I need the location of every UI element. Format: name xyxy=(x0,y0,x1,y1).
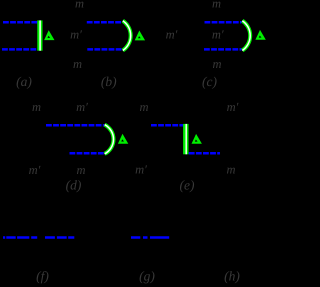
curved mirror (d) white core xyxy=(105,125,114,154)
svg-text:(g): (g) xyxy=(139,269,155,284)
beam segment (g) xyxy=(131,236,170,239)
svg-text:m: m xyxy=(226,162,235,176)
beam line bottom (a) xyxy=(2,48,38,51)
svg-text:(b): (b) xyxy=(101,74,117,89)
curved mirror (b) green xyxy=(123,21,131,51)
svg-text:m′: m′ xyxy=(227,100,239,114)
svg-text:m′: m′ xyxy=(76,100,88,114)
svg-text:m′: m′ xyxy=(135,162,147,176)
svg-text:m: m xyxy=(32,100,41,114)
delta label (a) xyxy=(44,30,54,40)
beam line bottom (c) xyxy=(204,48,242,51)
svg-text:m′: m′ xyxy=(166,27,178,41)
beam line top (a) xyxy=(3,21,38,24)
beam line top (c) xyxy=(205,21,242,24)
beam line bottom (d) xyxy=(70,152,105,155)
svg-text:m: m xyxy=(76,163,85,177)
svg-text:m: m xyxy=(212,57,221,71)
svg-text:(c): (c) xyxy=(202,74,217,89)
delta label (c) xyxy=(255,30,265,40)
svg-text:m′: m′ xyxy=(212,27,224,41)
curved mirror (d) green xyxy=(105,125,114,154)
flat mirror (e) green xyxy=(183,124,188,154)
curved mirror (c) white core xyxy=(242,21,250,51)
svg-text:(f): (f) xyxy=(36,269,49,284)
beam line top (d) xyxy=(46,124,104,127)
flat mirror (e) white core xyxy=(185,124,187,154)
beam line top (b) xyxy=(87,21,122,24)
svg-text:m′: m′ xyxy=(29,163,41,177)
flat mirror (a) green xyxy=(37,20,42,50)
curved mirror (b) white core xyxy=(123,21,131,51)
curved mirror (c) green xyxy=(242,21,250,51)
svg-text:m: m xyxy=(73,57,82,71)
beam segment left (f) xyxy=(3,236,38,239)
svg-text:m: m xyxy=(75,0,84,10)
svg-text:(e): (e) xyxy=(180,177,195,192)
svg-text:m: m xyxy=(212,0,221,10)
flat mirror (a) white core xyxy=(39,20,41,50)
svg-text:(a): (a) xyxy=(16,74,32,89)
beam line bottom (e) xyxy=(189,152,220,155)
beam segment right (f) xyxy=(45,236,74,239)
delta label (d) xyxy=(118,134,128,144)
svg-text:m: m xyxy=(139,100,148,114)
beam line bottom (b) xyxy=(87,48,121,51)
delta label (b) xyxy=(135,31,145,41)
beam line top (e) xyxy=(151,124,183,127)
svg-text:(d): (d) xyxy=(66,177,82,192)
delta label (e) xyxy=(192,134,202,144)
svg-text:(h): (h) xyxy=(224,268,240,283)
svg-text:m′: m′ xyxy=(70,27,82,41)
